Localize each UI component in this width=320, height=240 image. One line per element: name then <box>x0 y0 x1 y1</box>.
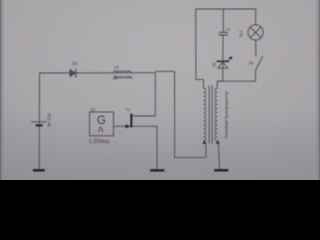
svg-text:L1: L1 <box>114 65 119 70</box>
ground (battery) <box>33 169 45 171</box>
svg-text:G2: G2 <box>90 108 95 112</box>
thyristor D2 triangle <box>218 62 228 68</box>
transformer TV1 core <box>208 85 210 143</box>
lamp EL2 lead bottom <box>255 40 257 56</box>
thyristor D2 bar <box>217 60 229 62</box>
transistor T1 bar <box>130 114 132 128</box>
svg-text:1-200кгц: 1-200кгц <box>89 139 109 145</box>
wire: left rail down to primary top <box>196 9 204 88</box>
wire: long vertical right of T1 down to transformer bottom feed <box>175 71 206 157</box>
svg-text:C1: C1 <box>226 27 231 31</box>
capacitor C1 top lead <box>222 9 224 32</box>
transformer TV1 primary winding <box>204 88 206 141</box>
wire: T1 emitter to ground <box>132 126 157 169</box>
wire: thyristor cathode down to secondary top <box>217 61 223 88</box>
arrowhead into T1 base <box>126 124 131 128</box>
transformer TV1 secondary winding <box>215 88 217 141</box>
inductor L1 <box>113 71 131 73</box>
svg-text:T1: T1 <box>126 107 131 112</box>
capacitor C1 plates <box>219 31 228 33</box>
wire: top rail right segment to long vertical <box>155 70 174 72</box>
lamp EL2 <box>248 25 263 40</box>
svg-text:D1: D1 <box>72 61 78 66</box>
paper background <box>0 0 320 180</box>
svg-text:Дроссель: Дроссель <box>113 74 133 79</box>
svg-text:Линейный Трансформатор: Линейный Трансформатор <box>224 91 228 138</box>
svg-text:EL2: EL2 <box>239 30 243 36</box>
ground (emitter) <box>150 169 164 171</box>
capacitor C1 bottom lead <box>222 35 224 61</box>
svg-text:G: G <box>97 115 106 127</box>
arrowhead primary bottom <box>203 140 207 144</box>
battery GB1 short plate <box>36 124 43 126</box>
switch S2 blade <box>256 56 263 70</box>
wire: top rail of lamp branch <box>196 8 256 10</box>
ground (secondary) <box>214 169 228 171</box>
svg-text:9v-12v: 9v-12v <box>47 113 52 127</box>
wire: left vertical from top corner to ground <box>38 73 40 169</box>
wire: secondary bottom to ground <box>218 143 219 169</box>
wire: T1 collector <box>132 115 153 117</box>
pulse symbol inside box <box>98 128 104 131</box>
oscillator G2 box <box>90 112 114 136</box>
svg-text:S2: S2 <box>249 61 254 65</box>
lamp EL2 lead top <box>255 9 257 25</box>
thyristor gate arrow <box>228 58 231 61</box>
wire: switch bottom to secondary top node <box>217 70 255 82</box>
battery GB1 long plate <box>31 121 47 123</box>
arrowhead secondary bottom <box>216 140 220 144</box>
svg-text:Д2: Д2 <box>212 62 216 66</box>
wire: G2 output to T1 base <box>114 125 130 127</box>
wire: vertical from top rail down to T1 collector <box>153 73 155 116</box>
diode D1 <box>70 69 76 76</box>
wire: top rail left segment <box>40 72 156 74</box>
